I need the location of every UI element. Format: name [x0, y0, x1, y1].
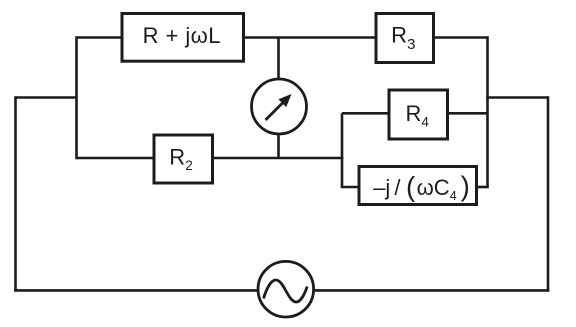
wire left rail to node A	[16, 96, 77, 99]
capacitor C4 impedance box	[359, 167, 477, 205]
wire top-left horizontal to R+jwL	[77, 36, 123, 39]
resistor R3	[376, 14, 434, 63]
wire node B to right rail	[486, 96, 548, 99]
wire node A to R2	[77, 157, 155, 160]
wire node D to C4	[341, 186, 359, 189]
resistor R + jwL	[122, 14, 244, 62]
wire galvanometer bottom	[277, 134, 280, 158]
wire bottom left to source	[14, 289, 258, 292]
wire R4 to node B	[448, 112, 488, 115]
AC source	[258, 261, 314, 317]
wire R2 to node D	[213, 157, 344, 160]
wire R3 right to node B	[434, 36, 488, 39]
wire node D vertical	[341, 113, 344, 187]
wire bottom right to source	[314, 289, 550, 292]
resistor R2	[154, 135, 213, 183]
resistor R4	[389, 90, 448, 139]
wire R+jwL to R3	[244, 36, 377, 39]
wire galvanometer top	[277, 38, 280, 80]
wire right rail vertical	[547, 96, 550, 292]
galvanometer G	[252, 79, 307, 134]
svg-text:R + jωL: R + jωL	[143, 23, 221, 48]
wire node A vertical	[75, 36, 78, 159]
wire C4 to node B	[477, 186, 489, 189]
wire left rail vertical	[14, 96, 17, 292]
wire node B vertical	[486, 36, 489, 187]
wire node D to R4	[342, 112, 389, 115]
